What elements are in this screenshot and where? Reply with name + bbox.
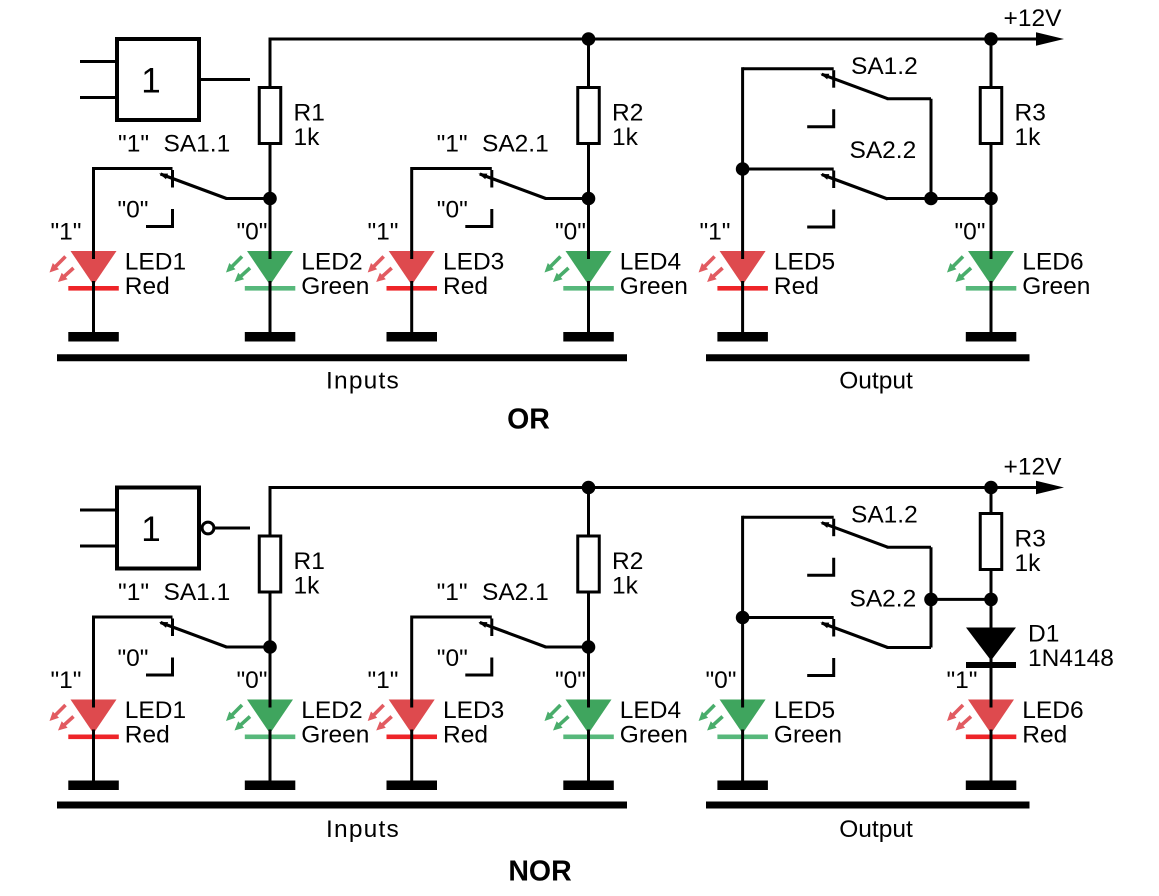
switch fixed contact (pole tick) SA1.2 bbox=[832, 519, 835, 537]
ground for LED3 bbox=[387, 781, 438, 791]
switch blade SA1.1 bbox=[159, 174, 226, 199]
LED LED3 (Red) bbox=[368, 250, 437, 333]
wire: SA2.1 "1" post down to LED bbox=[410, 167, 413, 251]
junction node: left post / SA2.2 bbox=[736, 611, 750, 625]
label LED1 Red bbox=[125, 249, 186, 301]
svg-text:Green: Green bbox=[301, 722, 369, 749]
junction node: left post / SA2.2 bbox=[736, 162, 750, 176]
svg-text:LED4: LED4 bbox=[620, 697, 681, 724]
label LED2 Green bbox=[301, 697, 369, 749]
switch "0" contact bracket SA1.1 bbox=[146, 209, 173, 227]
svg-text:"0": "0" bbox=[705, 667, 736, 694]
svg-text:D1: D1 bbox=[1028, 621, 1059, 648]
LED LED2 (Green) bbox=[226, 699, 295, 782]
svg-text:+12V: +12V bbox=[1004, 5, 1063, 32]
svg-text:"0": "0" bbox=[117, 645, 148, 672]
label R2 1k bbox=[612, 100, 643, 152]
ground for LED6 bbox=[966, 332, 1017, 342]
svg-text:LED3: LED3 bbox=[443, 249, 504, 276]
svg-text:LED2: LED2 bbox=[301, 249, 362, 276]
ground for LED6 bbox=[966, 781, 1017, 791]
wire: SA1.2 top bar bbox=[743, 516, 834, 519]
label R1 1k bbox=[294, 548, 325, 600]
svg-text:R1: R1 bbox=[294, 100, 325, 127]
ground for LED1 bbox=[68, 781, 119, 791]
wire: SA1.2 blade to drop bbox=[887, 546, 931, 549]
ground for LED5 bbox=[717, 781, 768, 791]
wire: R2 branch vertical bbox=[587, 488, 590, 700]
svg-text:R3: R3 bbox=[1015, 526, 1046, 553]
ground for LED4 bbox=[563, 332, 614, 342]
power arrow +12V bbox=[1036, 481, 1064, 495]
wire: Output common bus (OR) bbox=[706, 354, 1030, 361]
ground for LED2 bbox=[245, 332, 295, 342]
wire: +12V power rail (OR) bbox=[269, 38, 1039, 41]
svg-text:Inputs: Inputs bbox=[326, 368, 400, 395]
wire: SA2.2 top bar bbox=[743, 168, 834, 171]
wire: SA1.1 "1" post down to LED bbox=[92, 616, 95, 700]
svg-text:1k: 1k bbox=[612, 124, 639, 151]
svg-text:Red: Red bbox=[1022, 722, 1067, 749]
wire: SA1.1 top bar bbox=[94, 616, 173, 619]
svg-text:NOR: NOR bbox=[508, 856, 571, 888]
svg-text:"1": "1" bbox=[118, 131, 149, 158]
wire: SA1.1 top bar bbox=[94, 167, 173, 170]
junction node: rail / R2 bbox=[582, 481, 596, 495]
svg-text:"1": "1" bbox=[437, 579, 468, 606]
LED LED4 (Green) bbox=[545, 699, 614, 782]
LED LED6 (Red) bbox=[947, 699, 1016, 782]
wire: SA2.2 blade to drop bbox=[887, 646, 931, 649]
svg-text:"1": "1" bbox=[50, 219, 81, 246]
svg-text:LED1: LED1 bbox=[125, 697, 186, 724]
junction node: SA2.1 / R2 / LED4 bbox=[582, 192, 596, 206]
svg-text:Green: Green bbox=[1022, 273, 1090, 300]
svg-text:1N4148: 1N4148 bbox=[1028, 645, 1114, 672]
switch fixed contact (pole tick) SA1.1 bbox=[171, 619, 174, 637]
svg-text:OR: OR bbox=[507, 403, 550, 435]
svg-text:1k: 1k bbox=[612, 573, 639, 600]
switch fixed contact (pole tick) SA2.1 bbox=[490, 170, 493, 188]
svg-text:"0": "0" bbox=[117, 197, 148, 224]
LED LED3 (Red) bbox=[368, 699, 437, 782]
wire: output node bar to R3/D1 bbox=[931, 598, 991, 601]
svg-text:Green: Green bbox=[774, 722, 842, 749]
svg-text:Green: Green bbox=[620, 722, 688, 749]
junction node: SA1.1 / R1 / LED2 bbox=[263, 192, 277, 206]
wire: SA2.1 blade to node bbox=[545, 646, 589, 649]
switch blade SA2.2 bbox=[820, 623, 887, 648]
wire: R3 branch vertical bbox=[990, 39, 993, 251]
switch blade SA1.1 bbox=[159, 622, 226, 647]
svg-text:LED1: LED1 bbox=[125, 249, 186, 276]
svg-text:"0": "0" bbox=[236, 219, 267, 246]
switch "0" contact bracket SA2.1 bbox=[465, 209, 492, 227]
svg-text:Red: Red bbox=[125, 273, 170, 300]
svg-text:"0": "0" bbox=[555, 219, 586, 246]
wire: Inputs common bus (OR) bbox=[57, 354, 627, 361]
svg-text:"1": "1" bbox=[367, 667, 398, 694]
switch fixed contact (pole tick) SA1.2 bbox=[832, 70, 835, 88]
svg-text:1k: 1k bbox=[294, 573, 321, 600]
switch "0" contact bracket SA1.1 bbox=[146, 658, 173, 676]
svg-text:SA2.1: SA2.1 bbox=[482, 131, 549, 158]
LED LED5 (Green) bbox=[699, 699, 768, 782]
wire: R3 branch vertical bbox=[990, 488, 993, 700]
wire: SA1.1 "1" post down to LED bbox=[92, 167, 95, 251]
svg-text:"0": "0" bbox=[555, 667, 586, 694]
junction node: SA2.1 / R2 / LED4 bbox=[582, 640, 596, 654]
label LED3 Red bbox=[443, 697, 504, 749]
switch blade SA2.1 bbox=[478, 174, 545, 199]
svg-text:Red: Red bbox=[443, 722, 488, 749]
LED LED1 (Red) bbox=[50, 250, 119, 333]
svg-text:SA1.1: SA1.1 bbox=[164, 579, 231, 606]
wire: SA2.1 top bar bbox=[412, 167, 492, 170]
switch blade SA1.2 bbox=[820, 522, 887, 547]
svg-text:1k: 1k bbox=[1015, 124, 1042, 151]
junction node: rail / R2 bbox=[582, 32, 596, 46]
wire: R1 branch vertical bbox=[269, 39, 272, 251]
resistor R2 bbox=[578, 536, 600, 592]
switch fixed contact (pole tick) SA1.1 bbox=[171, 170, 174, 188]
svg-text:LED6: LED6 bbox=[1022, 249, 1083, 276]
svg-text:SA1.1: SA1.1 bbox=[164, 131, 231, 158]
power arrow +12V bbox=[1036, 32, 1064, 46]
label "1" SA1.1 bbox=[118, 131, 230, 158]
label LED3 Red bbox=[443, 249, 504, 301]
svg-text:SA1.2: SA1.2 bbox=[851, 53, 918, 80]
svg-text:LED6: LED6 bbox=[1022, 697, 1083, 724]
label LED4 Green bbox=[620, 697, 688, 749]
svg-text:"1": "1" bbox=[50, 667, 81, 694]
junction node: output bar / R3 / LED6 bbox=[984, 192, 998, 206]
svg-text:"1": "1" bbox=[946, 667, 977, 694]
junction node: output bar / R3 / D1 bbox=[984, 593, 998, 607]
svg-text:Output: Output bbox=[839, 368, 913, 395]
wire: SA1.2 top bar bbox=[743, 67, 834, 70]
LED LED2 (Green) bbox=[226, 250, 295, 333]
svg-text:R2: R2 bbox=[612, 548, 643, 575]
svg-text:R1: R1 bbox=[294, 548, 325, 575]
label D1 1N4148 bbox=[1028, 621, 1114, 673]
svg-text:Green: Green bbox=[620, 273, 688, 300]
ground for LED4 bbox=[563, 781, 614, 791]
label R1 1k bbox=[294, 100, 325, 152]
wire: drop vertical joining both switch blades bbox=[930, 547, 933, 647]
svg-text:"0": "0" bbox=[437, 645, 468, 672]
svg-text:Inputs: Inputs bbox=[326, 816, 400, 843]
svg-text:1: 1 bbox=[141, 62, 160, 101]
wire: SA1.2 blade to drop bbox=[887, 97, 931, 100]
svg-text:"0": "0" bbox=[236, 667, 267, 694]
svg-text:"1": "1" bbox=[437, 131, 468, 158]
LED LED6 (Green) bbox=[947, 250, 1016, 333]
switch fixed contact (pole tick) SA2.2 bbox=[832, 619, 835, 637]
switch blade SA1.2 bbox=[820, 74, 887, 99]
resistor R2 bbox=[578, 88, 600, 144]
svg-text:R3: R3 bbox=[1015, 100, 1046, 127]
svg-text:Red: Red bbox=[125, 722, 170, 749]
svg-text:R2: R2 bbox=[612, 100, 643, 127]
svg-text:LED3: LED3 bbox=[443, 697, 504, 724]
label "1" SA2.1 bbox=[437, 579, 549, 606]
svg-text:Output: Output bbox=[839, 816, 913, 843]
label LED2 Green bbox=[301, 249, 369, 301]
svg-text:SA2.1: SA2.1 bbox=[482, 579, 549, 606]
LED LED5 (Red) bbox=[699, 250, 768, 333]
label LED1 Red bbox=[125, 697, 186, 749]
ground for LED5 bbox=[717, 332, 768, 342]
switch blade SA2.2 bbox=[820, 174, 887, 199]
wire: SA1.2 drop vertical bbox=[930, 99, 933, 199]
svg-text:LED5: LED5 bbox=[774, 697, 835, 724]
wire: SA2.1 top bar bbox=[412, 616, 492, 619]
switch fixed contact (pole tick) SA2.1 bbox=[490, 619, 493, 637]
svg-text:+12V: +12V bbox=[1004, 454, 1063, 481]
junction node: switch drop / output bar bbox=[924, 593, 938, 607]
wire: SA1.1 blade to node bbox=[226, 646, 271, 649]
svg-text:"0": "0" bbox=[437, 197, 468, 224]
label R3 1k bbox=[1015, 526, 1046, 578]
ground for LED1 bbox=[68, 332, 119, 342]
wire: R1 branch vertical bbox=[269, 488, 272, 700]
junction node: rail / R3 bbox=[984, 32, 998, 46]
svg-text:SA2.2: SA2.2 bbox=[850, 586, 917, 613]
svg-text:LED5: LED5 bbox=[774, 249, 835, 276]
label R3 1k bbox=[1015, 100, 1046, 152]
svg-text:"1": "1" bbox=[118, 579, 149, 606]
switch blade SA2.1 bbox=[478, 622, 545, 647]
switch "0" contact bracket SA2.2 bbox=[807, 210, 834, 228]
label LED5 Green bbox=[774, 697, 842, 749]
label "1" SA2.1 bbox=[437, 131, 549, 158]
label R2 1k bbox=[612, 548, 643, 600]
switch "0" contact bracket SA2.1 bbox=[465, 658, 492, 676]
switch "0" contact bracket SA2.2 bbox=[807, 658, 834, 676]
wire: +12V power rail (NOR) bbox=[269, 486, 1039, 489]
wire: Inputs common bus (NOR) bbox=[57, 802, 627, 809]
junction node: rail / R3 bbox=[984, 481, 998, 495]
svg-text:SA2.2: SA2.2 bbox=[850, 137, 917, 164]
wire: output switches left post down to LED5 bbox=[741, 516, 744, 700]
ground for LED3 bbox=[387, 332, 438, 342]
label LED4 Green bbox=[620, 249, 688, 301]
svg-text:1k: 1k bbox=[294, 124, 321, 151]
label LED6 Green bbox=[1022, 249, 1090, 301]
svg-text:1k: 1k bbox=[1015, 550, 1042, 577]
svg-text:SA1.2: SA1.2 bbox=[851, 502, 918, 529]
svg-text:"1": "1" bbox=[367, 219, 398, 246]
wire: SA2.1 "1" post down to LED bbox=[410, 616, 413, 700]
svg-text:"1": "1" bbox=[699, 219, 730, 246]
wire: SA2.2 top bar bbox=[743, 616, 834, 619]
switch fixed contact (pole tick) SA2.2 bbox=[832, 171, 835, 189]
junction node: SA1.1 / R1 / LED2 bbox=[263, 640, 277, 654]
switch "0" contact bracket SA1.2 bbox=[807, 558, 834, 576]
ground for LED2 bbox=[245, 781, 295, 791]
label LED6 Red bbox=[1022, 697, 1083, 749]
LED LED4 (Green) bbox=[545, 250, 614, 333]
wire: SA1.1 blade to node bbox=[226, 197, 271, 200]
wire: SA2.1 blade to node bbox=[545, 197, 589, 200]
LED LED1 (Red) bbox=[50, 699, 119, 782]
wire: output node bar to R3 bbox=[887, 197, 991, 200]
wire: Output common bus (NOR) bbox=[706, 802, 1030, 809]
wire: output switches left post down to LED5 bbox=[741, 67, 744, 251]
resistor R1 bbox=[259, 536, 281, 592]
resistor R1 bbox=[259, 88, 281, 144]
label LED5 Red bbox=[774, 249, 835, 301]
logic gate U1 (NOR, "1" block with inversion bubble) bbox=[80, 488, 250, 569]
svg-text:LED2: LED2 bbox=[301, 697, 362, 724]
svg-text:Green: Green bbox=[301, 273, 369, 300]
wire: R2 branch vertical bbox=[587, 39, 590, 251]
logic gate U1 (OR, "1" block) bbox=[80, 39, 250, 120]
switch "0" contact bracket SA1.2 bbox=[807, 109, 834, 127]
label "1" SA1.1 bbox=[118, 579, 230, 606]
junction node: SA1.2 drop / output bar bbox=[924, 192, 938, 206]
resistor R3 bbox=[980, 514, 1002, 570]
svg-text:"0": "0" bbox=[954, 219, 985, 246]
diode D1 bbox=[966, 628, 1016, 669]
svg-text:LED4: LED4 bbox=[620, 249, 681, 276]
svg-text:Red: Red bbox=[774, 273, 819, 300]
resistor R3 bbox=[980, 88, 1002, 144]
svg-text:Red: Red bbox=[443, 273, 488, 300]
svg-text:1: 1 bbox=[141, 510, 160, 549]
